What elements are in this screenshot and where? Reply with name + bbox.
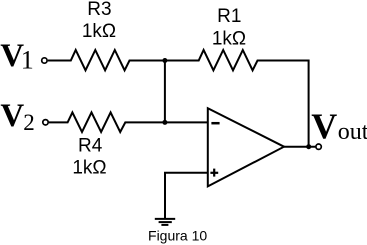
svg-text:out: out — [338, 119, 367, 145]
svg-text:Figura 10: Figura 10 — [148, 227, 207, 243]
svg-text:R3: R3 — [87, 0, 111, 20]
svg-text:1: 1 — [21, 46, 34, 75]
svg-text:V: V — [0, 98, 24, 134]
svg-text:1kΩ: 1kΩ — [82, 21, 116, 42]
svg-text:1kΩ: 1kΩ — [72, 157, 106, 178]
svg-text:V: V — [311, 106, 337, 146]
svg-text:R4: R4 — [78, 136, 103, 157]
svg-text:1kΩ: 1kΩ — [212, 28, 246, 49]
svg-text:R1: R1 — [217, 6, 241, 27]
svg-text:2: 2 — [23, 110, 35, 135]
